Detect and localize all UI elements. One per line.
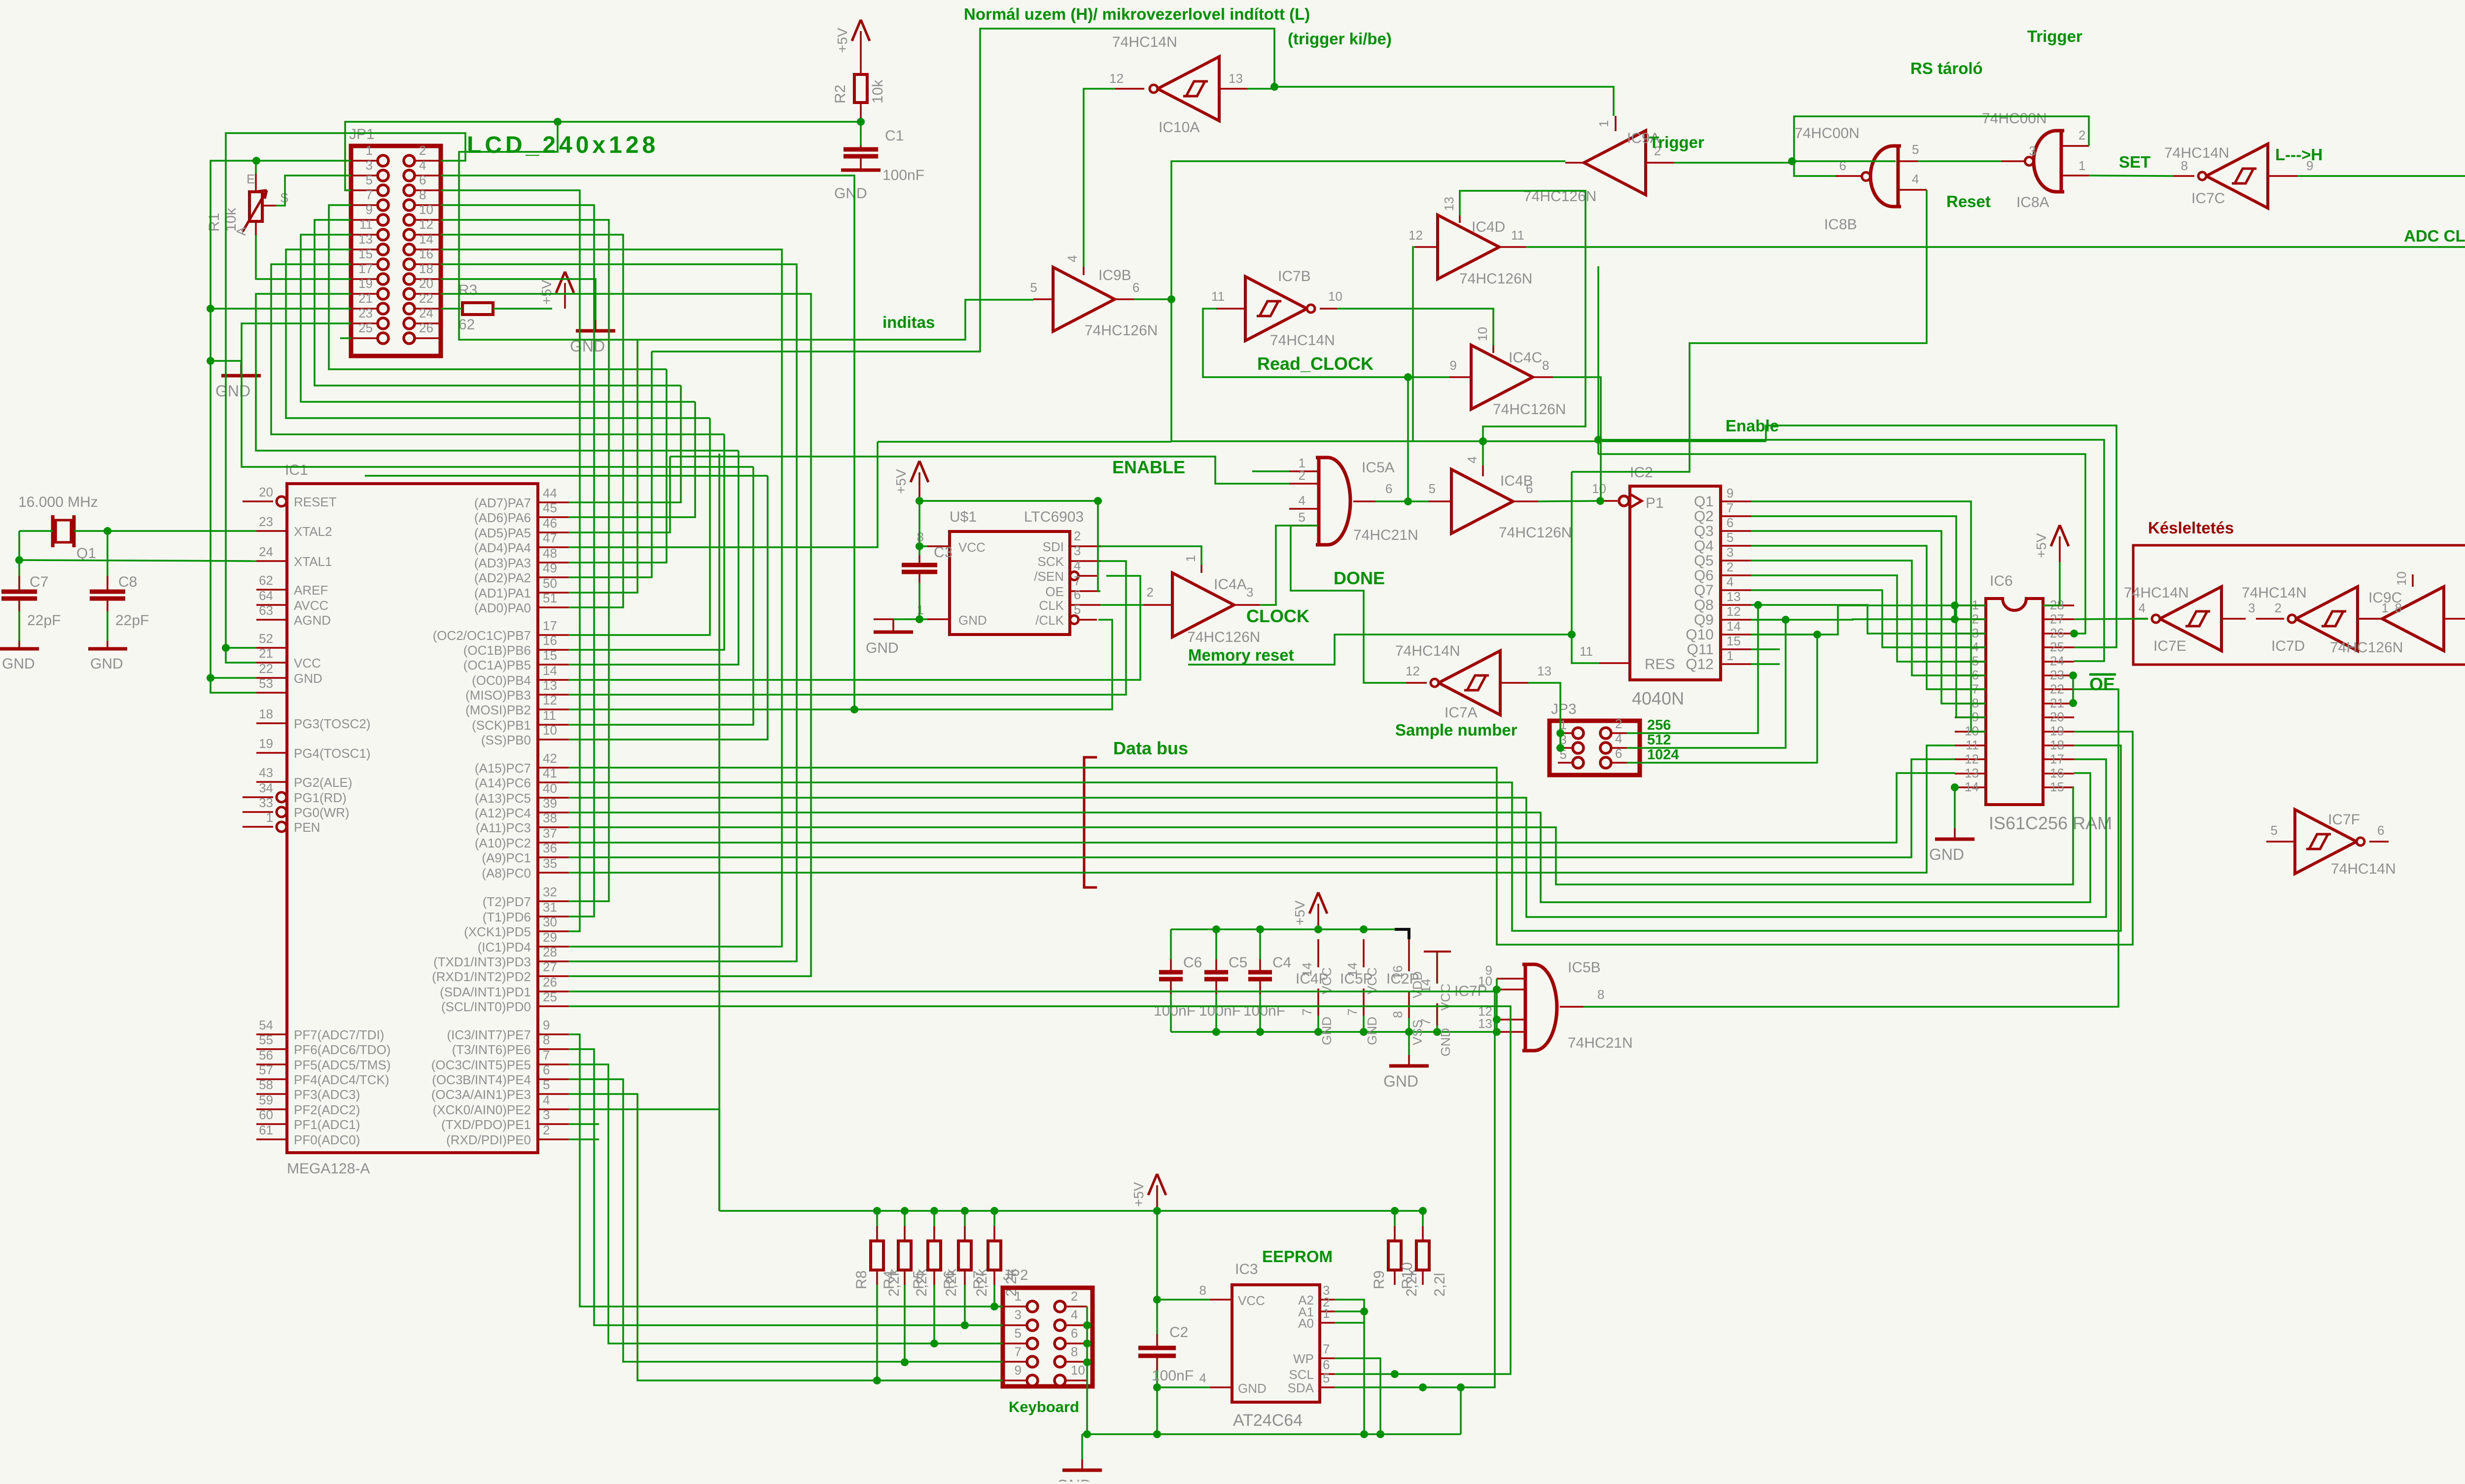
svg-text:28: 28	[543, 945, 557, 959]
svg-text:P1: P1	[1646, 495, 1664, 511]
junction xtal1-left	[15, 556, 23, 564]
wire IC4A.3 clock	[1260, 526, 1318, 605]
IC1 pin 19 PG4(TOSC1)	[256, 752, 287, 754]
svg-text:Read_CLOCK: Read_CLOCK	[1257, 353, 1373, 374]
IC2 pin 7 Q2	[1721, 515, 1751, 517]
svg-text:10: 10	[1478, 974, 1492, 989]
svg-text:256: 256	[1647, 717, 1671, 733]
capacitor C8 22pF	[106, 576, 108, 592]
IC1 pin 48 (AD3)PA3	[538, 562, 568, 564]
svg-text:(T1)PD6: (T1)PD6	[483, 910, 531, 924]
wire PC4 data	[568, 773, 2090, 902]
capacitor C3 100nF	[918, 555, 920, 565]
wire col k13 left stub	[365, 475, 768, 477]
svg-text:4040N: 4040N	[1632, 688, 1684, 708]
svg-text:23: 23	[259, 514, 273, 529]
svg-text:/CLK: /CLK	[1035, 613, 1064, 628]
svg-text:RES: RES	[1645, 656, 1675, 672]
junction pb2 col	[850, 706, 858, 713]
svg-text:IC1: IC1	[285, 462, 308, 478]
svg-text:13: 13	[1965, 766, 1979, 780]
svg-text:39: 39	[543, 796, 557, 811]
wire C8 top	[106, 531, 108, 576]
svg-text:(AD5)PA5: (AD5)PA5	[474, 526, 531, 540]
wire JP1 pin25 stub	[340, 337, 351, 339]
JP3 pin 1	[1573, 728, 1584, 739]
wire c6 bot	[1170, 994, 1172, 1032]
svg-text:22: 22	[2050, 681, 2064, 696]
svg-text:(SS)PB0: (SS)PB0	[481, 733, 531, 747]
svg-text:IC6: IC6	[1990, 573, 2013, 589]
svg-text:Q12: Q12	[1686, 656, 1714, 672]
wire C3 link top	[918, 546, 920, 555]
svg-text:(A10)PC2: (A10)PC2	[475, 836, 531, 850]
IC1 pin 31 (T1)PD6	[538, 916, 568, 918]
wire +5V to VCC U$1	[919, 498, 927, 546]
wire ic7p gnd	[1436, 1025, 1438, 1032]
svg-text:25: 25	[358, 320, 373, 335]
connector JP2 body	[1003, 1288, 1092, 1386]
svg-text:13: 13	[1478, 1016, 1492, 1031]
svg-text:Q1: Q1	[1694, 494, 1714, 510]
svg-text:16: 16	[419, 247, 433, 261]
wire IC5B input tie	[1496, 979, 1498, 1032]
svg-text:49: 49	[543, 561, 557, 575]
svg-text:R8: R8	[853, 1271, 870, 1289]
svg-text:LTC6903: LTC6903	[1024, 509, 1084, 525]
svg-text:C7: C7	[30, 574, 48, 590]
wire JP2 right pins tie to gnd	[1086, 1307, 1088, 1434]
IC1 pin 49 (AD2)PA2	[538, 576, 568, 578]
svg-text:2: 2	[2275, 601, 2282, 615]
wire Q9 to RAM pin2	[1751, 619, 1986, 620]
IC1 pin 18 PG3(TOSC2)	[256, 722, 287, 724]
wire Q8 to RAM pin3	[1751, 605, 1986, 634]
wire col JP1.11 staircase	[301, 235, 695, 402]
junction readclk	[1404, 373, 1412, 381]
wire c4 bot	[1259, 994, 1261, 1032]
svg-text:(SCK)PB1: (SCK)PB1	[472, 718, 531, 733]
svg-text:PG2(ALE): PG2(ALE)	[294, 775, 352, 790]
wire gnd branch	[211, 361, 241, 365]
JP2 pin 6	[1055, 1338, 1065, 1349]
svg-text:3: 3	[366, 158, 373, 173]
svg-text:8: 8	[543, 1032, 550, 1047]
buffer IC9C 74HC126N	[2382, 587, 2444, 651]
svg-text:IC7F: IC7F	[2328, 812, 2360, 828]
wire col JP1.15 staircase	[271, 264, 724, 434]
svg-text:38: 38	[543, 811, 557, 825]
svg-text:4: 4	[2139, 601, 2146, 615]
resistor R6 2,2k	[964, 1211, 966, 1226]
IC6 pin 8	[1955, 703, 1986, 705]
svg-text:7: 7	[1418, 1019, 1433, 1025]
svg-text:SDI: SDI	[1043, 539, 1064, 554]
IC1 pin 46 (AD5)PA5	[538, 531, 568, 533]
svg-text:Memory reset: Memory reset	[1188, 646, 1294, 664]
junction pot tap	[252, 157, 260, 165]
svg-text:inditas: inditas	[882, 313, 935, 331]
IC6 pin 23	[2043, 674, 2074, 676]
svg-text:20: 20	[259, 485, 273, 499]
svg-text:IC4C: IC4C	[1509, 350, 1542, 366]
svg-text:10: 10	[1592, 481, 1606, 496]
wire 512 tap	[1627, 620, 1786, 748]
nand IC8B 74HC00N	[1870, 146, 1901, 207]
svg-text:13: 13	[1537, 664, 1551, 678]
wire OE net IC5B to RAM22	[1584, 689, 2118, 1007]
svg-text:2: 2	[419, 143, 426, 158]
svg-text:12: 12	[1965, 751, 1979, 766]
wire inditas branch	[459, 122, 1033, 340]
IC6 pin 3	[1955, 633, 1986, 635]
junction trigger-node	[1788, 157, 1796, 165]
JP1 pin 23	[378, 318, 388, 329]
JP2 pin 4	[1055, 1320, 1065, 1331]
svg-text:22pF: 22pF	[27, 612, 61, 629]
svg-text:9: 9	[1726, 486, 1733, 500]
IC3 pin 1 A0	[1320, 1322, 1335, 1324]
svg-text:(OC3A/AIN1)PE3: (OC3A/AIN1)PE3	[431, 1087, 531, 1102]
svg-text:13: 13	[1726, 589, 1741, 604]
IC1 pin 59 PF2(ADC2)	[256, 1108, 287, 1110]
svg-text:OE: OE	[2089, 674, 2115, 694]
svg-text:Normál uzem (H)/ mikrovezerlov: Normál uzem (H)/ mikrovezerlovel indítot…	[964, 5, 1310, 23]
svg-text:74HC126N: 74HC126N	[1499, 525, 1572, 541]
svg-text:IC4P: IC4P	[1296, 971, 1329, 987]
IC6 pin 21	[2043, 703, 2074, 705]
JP1 pin 5	[378, 185, 388, 196]
IC1 pin 52	[256, 647, 287, 649]
wire PA4 enable horizontal	[878, 441, 1171, 443]
wire xtal1 wire	[19, 560, 256, 561]
resistor R9 2,2k	[1394, 1211, 1396, 1226]
IC1 pin 2 (RXD/PDI)PE0	[538, 1138, 568, 1140]
IC2 pin 1 Q12	[1721, 663, 1751, 665]
IC2P power pins	[1395, 929, 1409, 939]
svg-text:6: 6	[1071, 1326, 1078, 1341]
wire IC4B.6 to IC2.P1	[1538, 501, 1600, 501]
JP1 pin 13	[378, 244, 388, 255]
svg-text:25: 25	[2050, 639, 2064, 654]
svg-text:(A13)PC5: (A13)PC5	[475, 791, 531, 806]
wire IC8B.6 feedback to IC8A.2	[1794, 116, 2089, 176]
connector JP1 body	[351, 146, 441, 356]
svg-text:JP1: JP1	[349, 126, 375, 142]
svg-text:14: 14	[1726, 619, 1741, 634]
svg-text:6: 6	[1074, 587, 1081, 602]
IC6 pin 26	[2043, 633, 2074, 635]
wire PE0 stub	[568, 1138, 599, 1140]
JP1 pin 22	[404, 303, 415, 314]
IC1 pin 20 RESET	[277, 496, 286, 506]
ground GND-RAM	[1954, 828, 1956, 839]
IC1 pin 44 (AD7)PA7	[538, 501, 568, 503]
JP1 pin 15	[378, 259, 388, 270]
svg-text:58: 58	[259, 1077, 273, 1092]
wire Q4 to RAM pin7	[1751, 546, 1986, 689]
capacitor C1 100nF	[860, 145, 862, 149]
JP1 pin 10	[404, 214, 415, 225]
svg-text:1: 1	[917, 602, 924, 617]
svg-text:C8: C8	[118, 574, 137, 590]
junction ic9b-out	[1167, 295, 1175, 303]
svg-text:7: 7	[1726, 500, 1733, 515]
svg-text:3: 3	[1074, 543, 1081, 558]
svg-text:PF2(ADC2): PF2(ADC2)	[294, 1102, 360, 1117]
wire col JP1.9 staircase	[315, 220, 681, 386]
supply +5V P+BOT	[1156, 1185, 1158, 1211]
wire IC7B.11 read clock	[1203, 309, 1449, 377]
svg-text:(SDA/INT1)PD1: (SDA/INT1)PD1	[440, 985, 531, 999]
wire c5 top	[1215, 929, 1217, 959]
wire JP1 pin18 to gnd	[441, 279, 596, 320]
ram IC6 IS61C256 body	[1986, 599, 2043, 805]
JP2 pin 2	[1055, 1301, 1065, 1312]
JP1 pin 8	[404, 200, 415, 211]
svg-text:(OC1A)PB5: (OC1A)PB5	[463, 658, 531, 672]
IC2 pin 14 Q10	[1721, 634, 1751, 636]
svg-text:32: 32	[543, 884, 557, 899]
svg-text:IC7B: IC7B	[1278, 268, 1311, 284]
svg-text:74HC21N: 74HC21N	[1353, 527, 1418, 543]
wire enable jog to IC4D.13	[1460, 191, 1585, 441]
svg-text:60: 60	[259, 1107, 273, 1122]
wire SEN to PB4	[568, 576, 1140, 680]
ground GND-JP1R	[595, 320, 597, 331]
junction sda-r10	[1419, 1383, 1427, 1391]
svg-text:IC7E: IC7E	[2153, 638, 2186, 654]
svg-text:12: 12	[419, 217, 433, 232]
svg-text:EEPROM: EEPROM	[1262, 1247, 1333, 1266]
svg-text:R9: R9	[1371, 1271, 1387, 1289]
svg-text:22: 22	[419, 291, 433, 306]
wire c2 top	[1156, 1211, 1158, 1334]
junction xtal2	[104, 527, 111, 535]
svg-text:(XCK1)PD5: (XCK1)PD5	[464, 924, 531, 939]
IC6 pin 27	[2043, 618, 2074, 620]
svg-text:26: 26	[2050, 626, 2064, 640]
wire VCC net JP1 pin2	[226, 133, 465, 663]
svg-text:R4: R4	[881, 1271, 897, 1289]
JP2 pin 3	[1027, 1320, 1038, 1331]
svg-text:(AD7)PA7: (AD7)PA7	[474, 495, 531, 510]
IC1 pin 16 (OC1B)PB6	[538, 649, 568, 651]
svg-text:Q9: Q9	[1694, 612, 1714, 628]
wire oe3 to ram26	[1598, 454, 2085, 634]
IC1 pin 56 PF5(ADC5/TMS)	[256, 1063, 287, 1065]
svg-text:6: 6	[1615, 746, 1622, 761]
IC1 pin 9 (IC3/INT7)PE7	[538, 1033, 568, 1035]
svg-text:Q6: Q6	[1694, 567, 1714, 584]
svg-text:24: 24	[2050, 654, 2064, 669]
wire IC6 pin14 to gnd	[1954, 787, 1956, 828]
IC6 pin 16	[2043, 773, 2074, 775]
svg-text:(OC0)PB4: (OC0)PB4	[472, 673, 531, 688]
JP1 pin 20	[404, 288, 415, 299]
svg-text:41: 41	[543, 766, 557, 780]
svg-text:IC7D: IC7D	[2271, 638, 2305, 654]
svg-text:35: 35	[543, 856, 557, 871]
svg-text:/SEN: /SEN	[1034, 569, 1064, 584]
svg-text:12: 12	[543, 693, 557, 707]
svg-text:Q3: Q3	[1694, 523, 1714, 539]
wire PC5 data	[568, 759, 2106, 917]
svg-text:U$1: U$1	[950, 509, 977, 525]
svg-text:74HC14N: 74HC14N	[2124, 585, 2189, 601]
IC1 pin 24 XTAL1	[256, 560, 287, 562]
svg-text:13: 13	[358, 232, 373, 247]
JP2 pin 9	[1027, 1375, 1038, 1386]
ground GND-PWR	[1408, 1055, 1410, 1066]
IC6 pin 11	[1955, 744, 1986, 746]
wire PC1 data	[568, 759, 1955, 857]
and gate IC5B 74HC21N	[1522, 964, 1557, 1051]
junction jp3-3	[1556, 744, 1564, 752]
svg-text:31: 31	[543, 900, 557, 915]
junction u1-oe-jct	[1094, 497, 1102, 505]
JP2 pin 1	[1027, 1301, 1038, 1312]
svg-text:74HC00N: 74HC00N	[1795, 125, 1860, 141]
JP2 pin 7	[1027, 1356, 1038, 1367]
svg-text:Q11: Q11	[1687, 641, 1714, 658]
wire col normal to PA2	[568, 352, 652, 577]
wire R3 right	[493, 308, 552, 310]
IC3 pin 8 VCC	[1210, 1299, 1232, 1301]
wire gnd to pin22	[211, 677, 256, 679]
wire PA4 enable riser	[568, 442, 878, 547]
IC2 pin 15 Q11	[1721, 648, 1751, 650]
wire JP1 pin21 row	[211, 308, 351, 310]
wire col JP1.4 to PB2	[441, 176, 854, 709]
svg-text:24: 24	[419, 306, 433, 320]
resistor R2 10k	[854, 74, 867, 103]
wire PA5 enable riser	[568, 457, 670, 532]
svg-text:33: 33	[259, 795, 273, 810]
svg-text:7: 7	[366, 187, 373, 202]
svg-text:4: 4	[1065, 255, 1080, 262]
wire Q10 to RAM pin1	[1751, 605, 1986, 635]
IC1 pin 43 PG2(ALE)	[256, 781, 287, 783]
IC1 pin 25 (SCL/INT0)PD0	[538, 1005, 568, 1007]
svg-text:48: 48	[543, 546, 557, 561]
svg-text:3: 3	[2248, 601, 2255, 615]
IC1 pin 15 (OC1A)PB5	[538, 664, 568, 666]
svg-text:PF4(ADC4/TCK): PF4(ADC4/TCK)	[294, 1072, 389, 1087]
svg-text:4: 4	[1074, 558, 1081, 573]
svg-text:GND: GND	[1319, 1017, 1334, 1045]
svg-text:(TXD1/INT3)PD3: (TXD1/INT3)PD3	[433, 954, 531, 969]
svg-text:AVCC: AVCC	[294, 598, 328, 613]
svg-text:44: 44	[543, 486, 557, 500]
wire oe2 riser	[1597, 266, 1599, 454]
svg-text:74HC126N: 74HC126N	[2330, 639, 2403, 656]
potentiometer R1 10k	[249, 192, 262, 221]
wire oe2 to ram24	[1598, 440, 2104, 661]
svg-text:+5V: +5V	[1131, 1182, 1146, 1207]
junction q8tap	[1754, 601, 1762, 609]
svg-text:74HC126N: 74HC126N	[1085, 322, 1158, 339]
JP3 pin 3	[1573, 742, 1584, 753]
svg-text:SCL: SCL	[1289, 1367, 1314, 1382]
wire ram pin27 to IC7E.4	[2074, 619, 2148, 619]
JP1 pin 26	[404, 333, 415, 344]
svg-text:IC5B: IC5B	[1568, 959, 1601, 976]
wire col JP1.12 to PA0	[441, 235, 623, 607]
svg-text:C1: C1	[885, 128, 904, 144]
svg-text:56: 56	[259, 1048, 273, 1062]
svg-text:2,2l: 2,2l	[1432, 1273, 1448, 1297]
svg-text:15: 15	[2050, 779, 2064, 794]
svg-text:IC4B: IC4B	[1500, 473, 1533, 489]
JP1 pin 3	[378, 170, 388, 181]
JP1 pin 25	[378, 333, 388, 344]
JP1 pin 4	[404, 170, 415, 181]
IC1 pin 39 (A12)PC4	[538, 812, 568, 813]
svg-text:PG3(TOSC2): PG3(TOSC2)	[294, 716, 371, 731]
junction atie	[1360, 1430, 1368, 1438]
svg-text:7: 7	[1074, 573, 1081, 588]
svg-text:5: 5	[1030, 280, 1037, 295]
wire enable to ram25	[1766, 425, 2116, 647]
svg-text:10: 10	[1071, 1363, 1085, 1378]
svg-text:2: 2	[1071, 1289, 1078, 1304]
svg-text:4: 4	[1199, 1371, 1206, 1385]
svg-text:11: 11	[1211, 289, 1225, 304]
svg-text:R1: R1	[206, 213, 222, 232]
IC1 pin 45 (AD6)PA6	[538, 516, 568, 518]
IC1 pin 6 (OC3B/INT4)PE4	[538, 1078, 568, 1080]
wire PE2 to +5V rail	[568, 1109, 719, 1211]
svg-text:2: 2	[543, 1123, 550, 1137]
IC1 pin 61 PF0(ADC0)	[256, 1138, 287, 1140]
svg-text:5: 5	[2271, 823, 2278, 838]
JP3 pin 5	[1573, 757, 1584, 768]
svg-text:8: 8	[2181, 158, 2188, 173]
svg-text:R10: R10	[1399, 1262, 1415, 1289]
svg-text:L--->H: L--->H	[2275, 145, 2323, 164]
IC1 pin 17 (OC2/OC1C)PB7	[538, 634, 568, 636]
wire IC4D.12 input	[1413, 247, 1415, 441]
wire normal uzem net	[652, 29, 1274, 352]
wire ADC CLK	[1526, 247, 2465, 619]
svg-text:37: 37	[543, 826, 557, 841]
svg-text:(A15)PC7: (A15)PC7	[475, 761, 531, 776]
wire ic4p gnd	[1317, 1016, 1319, 1032]
svg-text:12: 12	[1726, 604, 1741, 619]
wire PE1 stub	[568, 1123, 599, 1125]
svg-text:21: 21	[2050, 696, 2064, 710]
IC6 pin 7	[1955, 688, 1986, 690]
svg-text:8: 8	[1542, 358, 1549, 373]
IC1 pin 63 AGND	[256, 619, 287, 621]
IC1 pin 54 PF7(ADC7/TDI)	[256, 1033, 287, 1035]
inverter IC7F 74HC14N	[2295, 810, 2357, 874]
IC6 pin 10	[1955, 731, 1986, 733]
svg-text:100nF: 100nF	[1154, 1003, 1196, 1019]
svg-text:1: 1	[366, 143, 373, 158]
IC2 pin 4 Q7	[1721, 589, 1751, 591]
svg-text:MEGA128-A: MEGA128-A	[287, 1161, 370, 1177]
svg-text:IC9B: IC9B	[1098, 267, 1131, 283]
delay group box Késleltetés	[2133, 545, 2465, 665]
JP1 pin 6	[404, 185, 415, 196]
resistor R8 2,2k	[876, 1211, 878, 1226]
wire gnd rail bottom	[1082, 1433, 1461, 1435]
IC6 pin 2	[1955, 618, 1986, 620]
wire PC2 data	[568, 773, 1955, 843]
svg-text:5: 5	[1299, 510, 1305, 525]
